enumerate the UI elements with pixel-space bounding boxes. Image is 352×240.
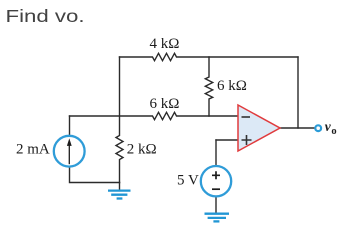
svg-text:4 kΩ: 4 kΩ	[150, 36, 180, 52]
svg-text:6 kΩ: 6 kΩ	[217, 78, 247, 94]
svg-text:5 V: 5 V	[177, 173, 199, 189]
svg-text:Find vo.: Find vo.	[6, 7, 85, 26]
svg-text:2 mA: 2 mA	[16, 142, 50, 158]
svg-text:6 kΩ: 6 kΩ	[150, 96, 180, 112]
svg-text:2 kΩ: 2 kΩ	[127, 142, 157, 158]
svg-text:o: o	[331, 126, 336, 137]
